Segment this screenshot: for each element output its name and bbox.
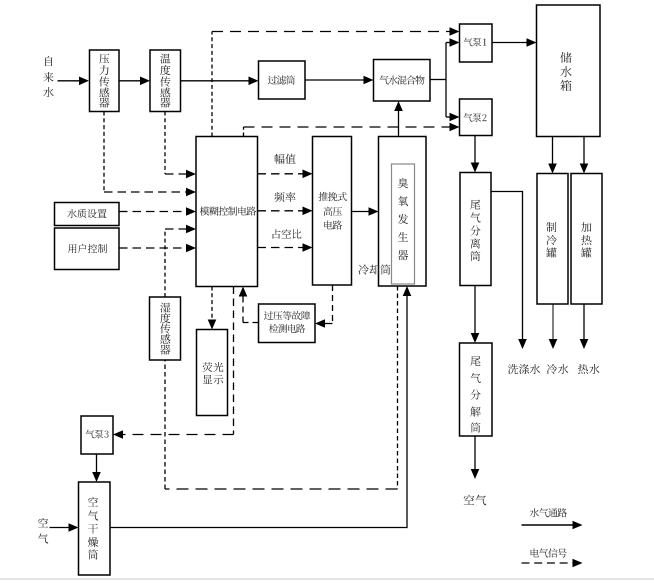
wire 储水箱 to 制冷罐 with arrow [548, 137, 557, 174]
wire 气泵3 to 空气干燥筒 with arrow [92, 454, 101, 482]
wire 气水混合物 to junction [430, 79, 446, 81]
wire dashed 模糊控制电路 to 荧光显示 [208, 287, 217, 330]
label 频率 (frequency) [274, 192, 295, 202]
box 模糊控制电路 (fuzzy control circuit) [196, 137, 258, 287]
wire 推挽式 to 冷却筒 with arrow [352, 207, 379, 216]
wire dashed 湿度传感器 to 模糊控制电路 [165, 225, 196, 297]
label 洗涤水 (washing water) [508, 364, 540, 374]
wire 压力传感器 to 温度传感器 with arrow [119, 77, 150, 86]
wire dashed 压力传感器 to 模糊控制电路 [104, 112, 196, 197]
label 空气 (air inlet) [38, 518, 48, 544]
label 幅值 (amplitude) [275, 154, 296, 164]
wire dashed 水质设置 to 模糊控制电路 [119, 207, 196, 216]
wire dashed 温度传感器 to 模糊控制电路 [165, 112, 196, 179]
label 电气信号 (electric signal legend) [531, 548, 567, 557]
wire dashed 频率 模糊 to 推挽式 [258, 207, 313, 216]
label 热水 (hot water) [578, 364, 600, 374]
wire 气泵2 to 尾气分离筒 with arrow [471, 136, 480, 173]
wire dashed 模糊控制电路 to 气泵1 [212, 27, 460, 136]
wire 臭氧发生器 to 气水混合物 with arrow [394, 101, 403, 137]
wire dashed 模糊控制电路 to 气泵2 [244, 123, 460, 137]
wire junction to 气泵1 with arrow [446, 38, 460, 47]
box 过压等故障检测电路 (fault detection circuit) [259, 304, 316, 343]
label 自来水 (tap water input) [43, 56, 53, 97]
box 压力传感器 (pressure sensor) [90, 50, 120, 112]
box 气水混合物 (gas-water mixture) [374, 60, 431, 102]
wire dashed 幅值 模糊 to 推挽式 [258, 170, 313, 179]
box 制冷罐 (cooling tank) [537, 174, 568, 305]
box 尾气分解筒 (tail gas decomposition cylinder) [460, 343, 493, 436]
box 储水箱 (water storage tank) [537, 5, 601, 137]
box 水质设置 (water quality setting) [55, 203, 120, 226]
wire 空气 inlet to 空气干燥筒 with arrow [50, 523, 79, 532]
box 温度传感器 (temperature sensor) [150, 50, 181, 112]
wire dashed 用户控制 to 模糊控制电路 [119, 244, 196, 253]
box 臭氧发生器 inner (ozone generator) [392, 164, 415, 284]
box 气泵2 (air pump 2) [460, 99, 493, 136]
box 冷却筒 outer (cooling cylinder) [379, 137, 427, 287]
box 用户控制 (user control) [55, 228, 120, 270]
wire 制冷罐 to 冷水 with arrow [549, 304, 558, 349]
wire dashed 过压等故障检测电路 to 模糊控制电路 [239, 287, 259, 323]
box 气泵1 (air pump 1) [460, 24, 493, 62]
wire dashed 模糊控制电路 to 气泵3 [113, 287, 234, 439]
box 气泵3 (air pump 3) [81, 416, 113, 454]
wire 过滤筒 to 气水混合物 with arrow [305, 76, 374, 85]
label 水气通路 (water/gas path legend) [530, 508, 567, 517]
label 冷水 (cold water) [547, 364, 569, 374]
wire dashed 推挽式 to 过压等故障检测电路 [315, 285, 333, 328]
box 湿度传感器 (humidity sensor) [150, 297, 181, 360]
label 占空比 (duty cycle) [273, 229, 302, 239]
wire 加热罐 to 热水 with arrow [580, 304, 589, 349]
wire 尾气分离筒 to 尾气分解筒 with arrow [471, 286, 480, 344]
box 推挽式高压电路 (push-pull HV circuit) [313, 137, 352, 286]
box 加热罐 (heating tank) [571, 174, 602, 305]
box 荧光显示 (fluorescent display) [197, 330, 228, 416]
box 过滤筒 (filter) [259, 61, 306, 99]
wire 空气干燥筒 to 冷却筒 with arrow [110, 286, 411, 528]
label 冷却筒 [358, 264, 390, 274]
wire legend solid arrow [522, 521, 583, 530]
box 空气干燥筒 (air drying cylinder) [79, 482, 111, 575]
wire 温度传感器 to 过滤筒 with arrow [181, 77, 259, 86]
wire dashed 冷却筒 to 湿度传感器 [165, 286, 398, 489]
wire 自来水 to 压力传感器 with arrow [58, 77, 90, 86]
wire 尾气分解筒 to 空气 outlet with arrow [471, 436, 480, 479]
wire 储水箱 to 加热罐 with arrow [580, 137, 589, 174]
box 尾气分离筒 (tail gas separation cylinder) [460, 173, 491, 286]
wire legend dashed arrow [522, 559, 583, 568]
label 空气 (air outlet) [464, 495, 487, 506]
wire dashed 占空比 模糊 to 推挽式 [258, 243, 313, 252]
wire 尾气分离筒 to 洗涤水 with arrow [491, 192, 527, 350]
wire junction to 气泵2 with arrow [446, 113, 460, 122]
wire 气泵1 to 储水箱 with arrow [492, 38, 537, 47]
wire junction vertical [445, 43, 447, 118]
